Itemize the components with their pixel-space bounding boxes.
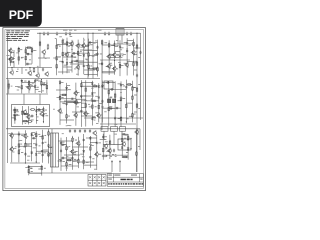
value label L11 xyxy=(112,153,114,156)
wire W134 xyxy=(76,98,86,100)
resistor R28 xyxy=(59,95,61,101)
resistor R10 xyxy=(62,39,64,45)
capacitor Cp25 xyxy=(101,100,103,104)
wire W114 xyxy=(59,80,61,125)
resistor R3 xyxy=(9,58,15,60)
capacitor Cp14 xyxy=(119,54,121,58)
wire W195 xyxy=(84,164,97,166)
wire W50 xyxy=(59,60,63,62)
wire W127 xyxy=(92,117,96,119)
wire W28 xyxy=(121,35,123,44)
capacitor Cp28 xyxy=(125,85,127,89)
wire W76 xyxy=(89,68,98,70)
wire W13 xyxy=(30,172,112,174)
wire W39 xyxy=(18,47,20,65)
capacitor C61 xyxy=(139,51,141,55)
value label L48 xyxy=(88,103,90,106)
diode D3 xyxy=(101,62,103,66)
wire W123 xyxy=(86,113,90,115)
transistor Q25 xyxy=(76,141,80,147)
diode D11 xyxy=(91,117,93,121)
wire W180 xyxy=(60,138,62,171)
node N31 xyxy=(43,121,44,122)
value label L26 xyxy=(90,43,93,46)
diode D15 xyxy=(31,151,33,155)
value label L29 xyxy=(104,41,107,44)
wire W51 xyxy=(66,38,68,74)
wire W208 xyxy=(122,133,128,135)
wire W17 xyxy=(100,123,136,125)
wire W193 xyxy=(61,165,78,167)
resistor R164 xyxy=(136,103,138,109)
resistor R7 xyxy=(56,44,58,50)
value label L41 xyxy=(36,86,38,89)
wire W2 xyxy=(7,33,9,163)
wire W105 xyxy=(34,79,36,93)
value label L53 xyxy=(101,106,104,109)
value label L60 xyxy=(21,134,23,137)
resistor R10 xyxy=(13,109,19,111)
wire W221 xyxy=(29,167,33,169)
value label L57 xyxy=(134,86,136,89)
wire W224 xyxy=(38,168,42,170)
transistor Q7 xyxy=(81,43,85,49)
wire W25 xyxy=(29,68,31,71)
wire W135 xyxy=(81,82,92,84)
value label L16 xyxy=(33,49,35,52)
value label L98 xyxy=(138,107,140,110)
value label L93 xyxy=(30,167,32,170)
wire W184 xyxy=(72,136,74,170)
resistor R14 xyxy=(88,52,90,58)
wire W61 xyxy=(80,46,84,48)
wire W170 xyxy=(43,152,47,154)
node N4 xyxy=(136,33,137,34)
value label L79 xyxy=(74,158,76,161)
wire W32 xyxy=(139,129,141,150)
value label L42 xyxy=(43,81,45,84)
wire W228 xyxy=(134,47,141,49)
capacitor Cp33 xyxy=(18,133,20,137)
value label L14 xyxy=(20,48,22,51)
capacitor Cp45 xyxy=(89,155,91,159)
node N27 xyxy=(122,133,123,134)
wire W237 xyxy=(84,69,95,71)
value label L64 xyxy=(27,144,30,147)
wire W202 xyxy=(106,151,110,153)
value label L2 xyxy=(69,29,72,32)
value label L7 xyxy=(16,70,18,73)
resistor R43 xyxy=(126,103,128,109)
transistor Q15 xyxy=(57,108,61,114)
resistor R34 xyxy=(98,104,100,110)
capacitor Cp27 xyxy=(120,83,122,87)
wire W58 xyxy=(78,44,82,46)
diode D1 xyxy=(66,61,68,65)
transistor Q1 xyxy=(8,48,12,54)
resistor R70 xyxy=(136,151,138,157)
resistor R19 xyxy=(108,43,110,49)
wire W145 xyxy=(114,81,116,126)
relay K1 coil block xyxy=(113,99,116,103)
value label L38 xyxy=(135,61,137,64)
resistor R71 xyxy=(28,168,30,174)
resistor R22 xyxy=(133,61,135,67)
fuse F1 box xyxy=(101,127,108,132)
wire W92 xyxy=(134,53,138,55)
capacitor C47 on top rail xyxy=(126,32,128,36)
capacitor C12 xyxy=(79,129,81,133)
value label L75 xyxy=(63,160,65,163)
value label L96 xyxy=(138,56,140,59)
wire W86 xyxy=(120,53,124,55)
transistor Q8 xyxy=(92,130,96,136)
wire W233 xyxy=(63,56,76,58)
resistor R24 xyxy=(21,85,23,91)
reference designator labels group xyxy=(104,84,128,125)
resistor R16 xyxy=(97,66,99,72)
wire W235 xyxy=(80,49,92,51)
wire W132 xyxy=(81,85,99,87)
wire W35 xyxy=(121,131,123,139)
wire W74 xyxy=(67,69,72,71)
value label L21 xyxy=(74,56,77,59)
value label L39 xyxy=(24,80,27,83)
resistor R23 xyxy=(8,83,10,89)
wire W219 xyxy=(22,113,28,115)
wire W44 xyxy=(26,63,32,65)
title block table xyxy=(107,174,143,187)
wire W81 xyxy=(106,66,110,68)
wire W38 xyxy=(7,58,11,60)
wire W31 xyxy=(136,129,138,172)
value label L25 xyxy=(86,64,89,67)
resistor R63 xyxy=(121,137,123,143)
resistor R36 xyxy=(91,100,97,102)
resistor R17 xyxy=(92,68,98,70)
transistor Q2 xyxy=(8,56,12,62)
wire W239 xyxy=(64,100,78,102)
value label L12 xyxy=(126,151,128,154)
resistor R64 xyxy=(127,136,129,142)
wire W131 xyxy=(67,102,82,104)
wire W140 xyxy=(60,94,67,96)
wire W73 xyxy=(63,66,72,68)
transistor Q13 xyxy=(131,50,135,56)
resistor R39 xyxy=(108,106,110,112)
value label L66 xyxy=(34,133,36,136)
wire W103 xyxy=(28,80,30,93)
resistor R60 xyxy=(90,146,92,152)
node N22 xyxy=(18,140,19,141)
transistor Q24 xyxy=(70,149,74,155)
node N14 xyxy=(8,88,9,89)
resistor R26 xyxy=(41,81,43,87)
capacitor C43 on top rail xyxy=(65,32,67,36)
wire W116 xyxy=(57,97,61,99)
wire W30 xyxy=(39,94,41,105)
capacitor C10 xyxy=(69,129,71,133)
schematic sheet inner border frame xyxy=(5,30,144,189)
capacitor Cp39 xyxy=(40,150,44,152)
wire W139 xyxy=(81,100,99,102)
wire W113 xyxy=(41,83,47,85)
reference designator labels group xyxy=(12,135,35,160)
transistor Q22 xyxy=(9,146,13,152)
wire W147 xyxy=(118,83,122,85)
wire W9 xyxy=(101,60,103,130)
wire W197 xyxy=(61,144,67,146)
reference designator labels group xyxy=(9,49,49,76)
wire W88 xyxy=(126,38,128,75)
resistor R31 xyxy=(85,87,87,93)
wire W129 xyxy=(95,112,99,114)
capacitor Cp51 xyxy=(35,109,37,113)
resistor R32 xyxy=(85,103,87,109)
wire W34 xyxy=(113,131,115,145)
resistor R71 xyxy=(109,140,111,146)
transistor Q32 xyxy=(121,141,125,147)
resistor R33 xyxy=(92,104,94,110)
resistor R27 xyxy=(46,84,48,90)
value label L82 xyxy=(98,141,101,144)
value label L97 xyxy=(138,83,140,86)
wire W210 xyxy=(14,107,16,124)
resistor R12 xyxy=(30,109,36,111)
value label L80 xyxy=(86,161,89,164)
value label L5 xyxy=(7,54,10,57)
wire W188 xyxy=(83,134,85,169)
node N7 xyxy=(18,48,19,49)
value label L71 xyxy=(44,141,46,144)
resistor R5 xyxy=(31,48,33,54)
wire W72 xyxy=(89,55,98,57)
value label L84 xyxy=(105,135,107,138)
wire W40 xyxy=(25,47,27,66)
capacitor Cp34 xyxy=(24,152,26,156)
node N29 xyxy=(14,120,15,121)
wire W174 xyxy=(43,149,49,151)
value label L32 xyxy=(110,64,112,67)
wire W136 xyxy=(81,102,86,104)
capacitor Cp12 xyxy=(88,41,92,43)
wire W126 xyxy=(89,106,93,108)
resistor R122 xyxy=(136,61,138,67)
value label L52 xyxy=(101,86,103,89)
value label L67 xyxy=(38,133,40,136)
value label L56 xyxy=(122,97,125,100)
wire W164 xyxy=(31,132,33,161)
reference designator labels group xyxy=(59,133,96,169)
wire W124 xyxy=(91,81,93,126)
transistor Q4 xyxy=(69,41,73,47)
wire W229 xyxy=(134,69,137,71)
resistor R69 xyxy=(23,120,29,122)
wire W21 xyxy=(13,50,15,57)
capacitor Cp9 xyxy=(96,52,98,56)
wire W19 xyxy=(43,54,45,58)
wire W171 xyxy=(48,129,50,163)
wire W152 xyxy=(132,87,136,89)
value label L27 xyxy=(90,65,92,68)
wire W24 xyxy=(21,68,23,75)
fuse F3 box xyxy=(120,127,126,132)
resistor R35 xyxy=(92,85,98,87)
wire W5 xyxy=(6,93,48,95)
wire W232 xyxy=(57,44,68,46)
wire W220 xyxy=(28,165,30,175)
wire W206 xyxy=(103,143,122,145)
diode D22 xyxy=(42,108,44,112)
wire W69 xyxy=(72,52,78,54)
wire W96 xyxy=(102,71,115,73)
value label L24 xyxy=(86,44,88,47)
wire W182 xyxy=(58,160,62,162)
wire W153 xyxy=(129,115,133,117)
wire W16 xyxy=(100,117,143,119)
value label L76 xyxy=(69,163,72,166)
wire W47 xyxy=(53,57,57,59)
wire W162 xyxy=(18,131,20,162)
capacitor Cp2 xyxy=(26,63,30,65)
resistor R148 xyxy=(136,87,138,93)
wire W211 xyxy=(11,117,15,119)
wire W163 xyxy=(24,130,26,163)
wire W165 xyxy=(32,131,36,133)
node N26 xyxy=(48,154,49,155)
value label L69 xyxy=(38,152,41,155)
node N13 xyxy=(127,48,128,49)
resistor R18 xyxy=(101,40,103,46)
node N8 xyxy=(25,48,26,49)
value label L83 xyxy=(99,153,101,156)
wire W217 xyxy=(36,109,43,111)
diode D4 xyxy=(114,43,116,47)
resistor R49 xyxy=(18,149,20,155)
capacitor Cp31 xyxy=(109,107,113,109)
capacitor Cp11 xyxy=(72,52,76,54)
capacitor Cp37 xyxy=(42,153,44,157)
capacitor Cp10 xyxy=(75,60,79,62)
wire W205 xyxy=(125,134,129,136)
transistor Q5 xyxy=(75,43,79,49)
wire W97 xyxy=(115,50,120,52)
wire W112 xyxy=(29,86,35,88)
diode D20 xyxy=(121,146,123,150)
value label L74 xyxy=(63,143,66,146)
wire W201 xyxy=(109,135,111,159)
wire W15 xyxy=(116,43,134,45)
wire W106 xyxy=(35,79,39,81)
capacitor Cp52 xyxy=(37,108,41,110)
value label L87 xyxy=(130,147,132,150)
resistor R48 xyxy=(18,143,20,149)
wire W20 xyxy=(38,57,50,59)
value label L73 xyxy=(50,152,52,155)
wire W241 xyxy=(80,95,94,97)
node N5 xyxy=(29,67,30,68)
capacitor Cp1 xyxy=(26,53,30,55)
wire W29 xyxy=(23,94,25,105)
value label L20 xyxy=(69,61,72,64)
wire W200 xyxy=(100,139,104,141)
value label L62 xyxy=(21,151,23,154)
wire W79 xyxy=(108,40,110,75)
value label L51 xyxy=(94,119,96,122)
wire W66 xyxy=(78,61,97,63)
value label L4 xyxy=(98,29,102,32)
wire W104 xyxy=(26,85,30,87)
node N21 xyxy=(126,121,127,122)
transistor Q30 xyxy=(134,129,138,135)
wire W11 xyxy=(140,33,142,120)
capacitor Cp13 xyxy=(119,45,121,49)
wire W122 xyxy=(85,80,87,126)
transistor Q12 xyxy=(124,62,128,68)
diode D9 xyxy=(91,82,93,86)
wire W82 xyxy=(114,41,116,75)
wire W130 xyxy=(81,107,86,109)
wire W245 xyxy=(64,154,80,156)
value label L34 xyxy=(117,53,119,56)
value label L94 xyxy=(31,170,33,173)
wire W3 xyxy=(8,67,53,69)
wire W157 xyxy=(109,107,115,109)
transformer T2 xyxy=(51,133,59,167)
resistor R47 xyxy=(126,84,132,86)
value label L46 xyxy=(78,102,80,105)
capacitor Cp6 xyxy=(83,64,85,68)
wire W107 xyxy=(35,88,39,90)
wire W56 xyxy=(69,45,73,47)
resistor R8 xyxy=(56,56,58,62)
resistor R21 xyxy=(133,41,135,47)
wire W59 xyxy=(78,54,82,56)
capacitor C42 on top rail xyxy=(56,32,58,36)
wire W207 xyxy=(103,154,128,156)
title block logo text xyxy=(121,179,133,181)
resistor R37 xyxy=(61,94,67,96)
wire W142 xyxy=(99,103,103,105)
wire W240 xyxy=(72,111,86,113)
wire W146 xyxy=(120,81,122,127)
value label L15 xyxy=(21,57,23,60)
transistor Q7 xyxy=(39,111,43,117)
capacitor Cp7 xyxy=(87,43,89,47)
resistor R56 xyxy=(66,162,68,168)
resistor R53 xyxy=(48,131,50,137)
capacitor Cp40 xyxy=(60,141,62,145)
resistor R2 xyxy=(18,56,20,62)
diode D13 xyxy=(101,84,103,88)
value label L58 xyxy=(134,113,136,116)
wire W84 xyxy=(119,40,121,76)
resistor R41 xyxy=(120,96,122,102)
wire W189 xyxy=(80,153,84,155)
resistor R62 xyxy=(102,147,104,153)
capacitor C1 xyxy=(42,68,44,72)
value label L55 xyxy=(123,85,125,88)
diode D14 xyxy=(31,133,33,137)
transistor Q11 xyxy=(112,66,116,72)
wire W48 xyxy=(62,39,64,75)
wire W7 xyxy=(87,33,89,78)
value label L89 xyxy=(17,114,20,117)
value label L9 xyxy=(36,119,38,122)
node N17 xyxy=(46,83,47,84)
node N20 xyxy=(120,92,121,93)
wire W80 xyxy=(109,53,113,55)
